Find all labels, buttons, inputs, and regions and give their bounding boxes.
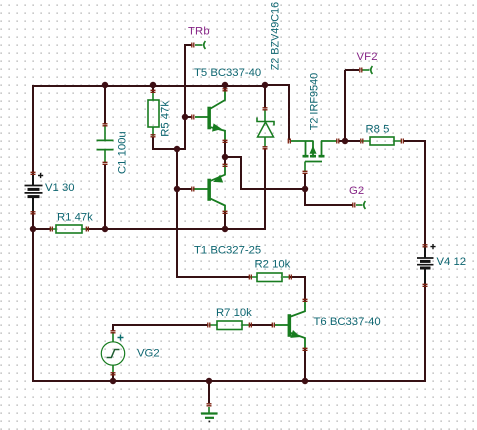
wire emitter node column <box>224 141 226 165</box>
wire emitter node to gate node <box>225 157 306 189</box>
wire R5 bottom to node <box>153 137 178 149</box>
wire R2 right to T6 collector <box>290 277 305 302</box>
junction node T2 gate / G2 <box>302 186 308 192</box>
svg-text:T2 IRF9540: T2 IRF9540 <box>309 73 321 131</box>
pin ticks Z2 <box>263 108 268 149</box>
wire T5 base stub <box>185 116 192 118</box>
wire R7 right to T6 base <box>250 324 273 326</box>
pin tick ground <box>207 404 212 406</box>
junction node V1 minus rail <box>30 226 36 232</box>
wire Z2 bottom riser <box>264 148 266 230</box>
wire drain tick to junction <box>339 140 345 142</box>
label R7 <box>216 307 252 319</box>
junction node ground rail <box>206 378 212 384</box>
svg-text:R5 47k: R5 47k <box>160 101 172 137</box>
wire gate drop to G2 branch <box>305 173 353 205</box>
junction node emitters T5-T1 <box>222 154 228 160</box>
pin ticks T6 collector and emitter <box>303 299 308 350</box>
svg-text:VG2: VG2 <box>137 348 160 360</box>
svg-text:V4 12: V4 12 <box>437 256 467 268</box>
wire node to T1 base column <box>177 148 250 277</box>
pin ticks R1 <box>50 227 88 232</box>
junction node T2 drain / VF2 / R8 <box>342 138 348 144</box>
pin tick T2 gate <box>303 171 308 173</box>
pin ticks R8 <box>361 139 404 144</box>
svg-text:T5 BC337-40: T5 BC337-40 <box>194 67 261 79</box>
wire bottom rail <box>32 380 426 382</box>
pin ticks R2 <box>249 275 291 280</box>
resistor R8 <box>361 137 402 145</box>
pin ticks V4 <box>423 245 428 286</box>
pin tick T6 base <box>272 323 274 328</box>
svg-text:Z2 BZV49C16: Z2 BZV49C16 <box>270 2 282 70</box>
pin ticks R5 <box>151 90 156 137</box>
label R5 rotated <box>160 101 172 137</box>
label Z2 rotated <box>270 2 282 70</box>
junction node T1 collector <box>222 226 228 232</box>
battery V4 <box>417 244 436 284</box>
label R1 <box>57 212 93 224</box>
svg-text:T1 BC327-25: T1 BC327-25 <box>194 245 261 257</box>
svg-text:VF2: VF2 <box>357 51 378 63</box>
junction node R5 top <box>150 82 156 88</box>
wire C1 bottom stub <box>104 164 106 229</box>
label T1 <box>194 245 261 257</box>
pin tick terminal VF2 <box>360 68 362 73</box>
wire V4 bottom riser <box>424 284 426 382</box>
wire VG2 bottom stub <box>112 373 114 381</box>
svg-text:V1 30: V1 30 <box>45 182 75 194</box>
junction node C1 bottom <box>102 226 108 232</box>
wire mid rail R1 to Z2 <box>33 228 266 230</box>
wire V4 top to R8 right <box>403 141 425 247</box>
wire C1 top stub <box>104 85 106 124</box>
pin ticks C1 <box>103 124 108 165</box>
svg-text:G2: G2 <box>349 185 364 197</box>
svg-text:TRb: TRb <box>188 26 210 38</box>
wire T1 base stub <box>177 188 192 190</box>
battery V1 <box>25 173 44 211</box>
source VG2 <box>101 332 124 373</box>
pin tick terminal G2 <box>353 203 355 208</box>
label VG2 <box>137 348 160 360</box>
label T6 <box>314 316 381 328</box>
label C1 rotated <box>117 131 129 174</box>
resistor R5 <box>148 92 159 136</box>
junction node T6 emitter rail <box>302 378 308 384</box>
svg-text:C1 100u: C1 100u <box>117 131 129 174</box>
pin ticks T1 emitter and collector <box>223 164 228 213</box>
junction node T1 base <box>174 186 180 192</box>
pin tick terminal TRb <box>192 43 194 48</box>
label R8 <box>366 124 390 136</box>
junction node T5 collector rail <box>222 82 228 88</box>
label G2 terminal <box>349 185 364 197</box>
wire TRb net vertical <box>177 44 192 149</box>
label TRb terminal <box>188 26 210 38</box>
pin ticks T5 collector and emitter <box>223 89 228 143</box>
label V1 <box>45 182 75 194</box>
transistor T1 <box>193 165 225 212</box>
svg-text:R2 10k: R2 10k <box>255 259 291 271</box>
resistor R2 <box>250 273 290 282</box>
pin tick T1 base <box>192 187 194 192</box>
wire R8 left to drain junction <box>345 140 360 142</box>
junction node T5 base / TRb <box>182 114 188 120</box>
svg-text:R8 5: R8 5 <box>366 124 390 136</box>
zener diode Z2 <box>257 110 274 147</box>
svg-text:T6 BC337-40: T6 BC337-40 <box>314 316 381 328</box>
VG2 plus sign <box>118 335 124 341</box>
junction node VG2 bottom rail <box>110 378 116 384</box>
terminal G2 arc <box>356 201 365 209</box>
resistor R1 <box>51 225 87 233</box>
label V4 <box>437 256 467 268</box>
transistor T6 <box>274 302 305 349</box>
pin ticks R7 <box>208 323 252 328</box>
terminal TRb arc <box>195 41 205 49</box>
origin marker dot <box>209 421 211 423</box>
svg-text:R1 47k: R1 47k <box>57 212 93 224</box>
ground <box>201 407 218 418</box>
pin ticks T2 drain and source <box>288 139 339 144</box>
resistor R7 <box>209 321 250 330</box>
wire Z2 top stub <box>264 85 266 108</box>
wire T6 emitter drop <box>304 349 306 381</box>
wire ground stub <box>208 381 210 403</box>
wire T1 collector drop <box>224 212 226 230</box>
MOSFET T2 <box>291 141 337 172</box>
pin tick T5 base <box>192 115 194 120</box>
wire VG2 top to R7 <box>113 325 208 331</box>
label T5 <box>194 67 261 79</box>
terminal VF2 arc <box>362 66 372 74</box>
junction node C1 top <box>102 82 108 88</box>
svg-text:R7 10k: R7 10k <box>216 307 252 319</box>
pin ticks VG2 <box>111 331 116 375</box>
wire VF2 drop <box>345 70 359 141</box>
wire V1 bottom to bottom-left corner <box>32 210 34 380</box>
wire R5 top stub <box>152 85 154 92</box>
wire T5 collector stub <box>224 85 226 91</box>
label T2 rotated <box>309 73 321 131</box>
junction node Z2 top <box>262 82 268 88</box>
capacitor C1 <box>97 125 114 163</box>
transistor T5 <box>195 91 225 141</box>
label R2 <box>255 259 291 271</box>
junction node R5 bottom <box>174 146 180 152</box>
label VF2 terminal <box>357 51 378 63</box>
pin ticks V1 <box>31 172 36 214</box>
wire top rail to MOSFET source <box>265 85 289 140</box>
wire top rail net V1+ <box>33 85 266 87</box>
wire left vertical to V1 top <box>32 85 34 176</box>
